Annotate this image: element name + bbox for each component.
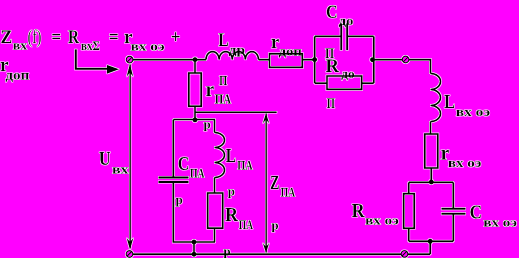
svg-text:R: R [326, 56, 340, 77]
svg-text:r: r [206, 80, 215, 101]
svg-text:=: = [109, 27, 119, 48]
svg-text:R: R [68, 27, 79, 48]
svg-text:вхΣ: вхΣ [81, 38, 100, 53]
svg-text:C: C [470, 203, 482, 224]
svg-text:р: р [223, 243, 230, 258]
svg-text:(f): (f) [28, 27, 42, 48]
svg-text:ПА: ПА [281, 185, 296, 200]
svg-text:L: L [218, 31, 229, 51]
svg-text:ПА: ПА [237, 158, 253, 173]
svg-text:ПА: ПА [190, 166, 205, 181]
svg-text:=: = [51, 27, 61, 48]
svg-text:вх оэ: вх оэ [448, 155, 482, 170]
svg-text:Z: Z [1, 27, 13, 48]
svg-text:р: р [176, 192, 183, 207]
svg-text:П: П [327, 96, 335, 112]
svg-text:L: L [444, 92, 455, 113]
svg-text:др: др [229, 42, 246, 57]
svg-text:доп: доп [5, 69, 29, 84]
svg-text:до: до [341, 66, 354, 81]
svg-text:вх оэ: вх оэ [365, 213, 399, 228]
svg-text:U: U [99, 149, 111, 170]
svg-text:р: р [228, 184, 235, 199]
svg-text:вх оэ: вх оэ [483, 215, 517, 230]
svg-text:до: до [339, 13, 354, 28]
svg-text:ПА: ПА [239, 217, 254, 232]
svg-text:R: R [352, 201, 366, 222]
svg-text:R: R [225, 205, 239, 226]
svg-text:C: C [178, 154, 190, 175]
svg-text:L: L [226, 146, 236, 167]
svg-text:П: П [219, 73, 227, 88]
svg-text:C: C [326, 2, 338, 23]
svg-text:вх: вх [112, 162, 129, 177]
svg-text:ПА: ПА [215, 92, 231, 107]
svg-text:вх оэ: вх оэ [456, 104, 491, 119]
svg-text:+: + [171, 27, 181, 48]
svg-text:доп: доп [279, 44, 303, 59]
svg-text:вх оэ: вх оэ [131, 39, 165, 54]
svg-text:Z: Z [270, 173, 279, 194]
svg-text:вх: вх [13, 37, 28, 52]
svg-text:р: р [271, 217, 278, 232]
svg-text:р: р [204, 117, 211, 132]
